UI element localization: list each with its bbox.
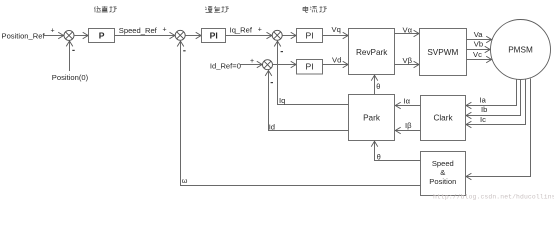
minus sign at S4 [271, 82, 273, 83]
wire S3 to PI iq [282, 35, 296, 37]
svg-text:+: + [51, 27, 55, 34]
block Clark [421, 96, 466, 141]
svg-text:θ: θ [376, 82, 380, 91]
wire Clark to Park (Ibeta) [395, 130, 420, 132]
wire PI iq to RevPark [323, 35, 349, 37]
svg-text:Id_Ref=0: Id_Ref=0 [210, 61, 241, 70]
svg-text:PI: PI [210, 31, 218, 41]
svg-text:Iq: Iq [279, 96, 285, 105]
svg-text:PMSM: PMSM [508, 46, 533, 55]
svg-text:Speed_Ref: Speed_Ref [119, 26, 158, 35]
minus sign at S2 [183, 50, 185, 51]
svg-text:θ: θ [377, 153, 381, 162]
svg-text:Vβ: Vβ [403, 56, 413, 65]
svg-text:Id: Id [269, 122, 275, 131]
wire SVPWM to PMSM (Vc) [467, 59, 492, 61]
svg-text:Ia: Ia [480, 95, 487, 104]
motor PMSM [491, 20, 551, 80]
svg-text:Vb: Vb [474, 40, 483, 49]
svg-text:Ic: Ic [480, 115, 486, 124]
svg-text:PI: PI [306, 62, 314, 72]
wire theta from Park top up into RevPark [374, 75, 376, 94]
block Speed & Position [421, 152, 466, 196]
svg-text:+: + [163, 27, 167, 34]
summing junction S4 (id error) [263, 60, 273, 70]
wire SVPWM to PMSM (Vb) [467, 49, 491, 51]
block PI (id current controller) [297, 60, 323, 75]
svg-text:+: + [250, 58, 254, 65]
block PI (speed controller) [202, 29, 226, 43]
svg-text:PI: PI [306, 31, 314, 41]
wire S1 to P controller [74, 35, 88, 37]
wire Position_Ref to summing junction S1 [44, 35, 64, 37]
block PI (iq current controller) [297, 29, 323, 43]
wire theta from Speed&Position to Park bottom [375, 141, 421, 160]
wire Position(0) up to S1 [69, 41, 71, 71]
svg-text:Iq_Ref: Iq_Ref [230, 25, 253, 34]
wire Park Iq feedback to S3 [278, 41, 349, 104]
wire Clark to Park (Ialpha) [395, 105, 420, 107]
svg-text:RevPark: RevPark [356, 48, 388, 57]
wire S4 to PI id [273, 64, 296, 66]
svg-text:Park: Park [363, 114, 381, 123]
wire PMSM phase a down to Clark (Ia) [466, 79, 517, 105]
wire RevPark to SVPWM (Vbeta) [395, 64, 420, 66]
svg-text:Position: Position [429, 177, 456, 186]
summing junction S2 (speed error) [175, 30, 185, 40]
svg-text:&: & [440, 168, 445, 177]
label 电流环 (current loop) [303, 6, 327, 12]
block P (position controller) [89, 29, 115, 43]
svg-text:Vd: Vd [332, 56, 341, 65]
svg-text:Vq: Vq [332, 25, 341, 34]
label 位置环 (position loop) [94, 6, 116, 12]
wire S2 to PI speed [185, 35, 201, 37]
minus sign at S1 [72, 50, 74, 51]
svg-text:Iα: Iα [404, 96, 411, 105]
wire PMSM shaft down to Speed & Position [466, 79, 531, 177]
wire Park Id feedback to S4 [269, 71, 349, 131]
svg-text:P: P [99, 31, 105, 41]
svg-text:+: + [258, 27, 262, 34]
wire PMSM phase c down to Clark (Ic) [466, 79, 526, 125]
wire SVPWM to PMSM (Va) [467, 39, 492, 41]
minus sign at S3 [281, 51, 283, 52]
svg-text:ω: ω [182, 176, 188, 185]
wire PI id to RevPark [323, 64, 349, 66]
summing junction S1 (position error) [64, 30, 74, 40]
block Park [349, 95, 395, 141]
label 速度环 (speed loop) [205, 6, 229, 12]
wire omega from Speed&Position to S2 [181, 41, 421, 185]
svg-text:Va: Va [474, 30, 484, 39]
svg-text:Position(0): Position(0) [52, 73, 89, 82]
svg-text:Speed: Speed [432, 159, 454, 168]
wire PMSM phase b down to Clark (Ib) [466, 79, 521, 115]
block RevPark [349, 29, 395, 75]
svg-text:SVPWM: SVPWM [427, 48, 458, 57]
svg-text:Position_Ref: Position_Ref [2, 31, 46, 40]
block SVPWM [420, 29, 467, 76]
svg-text:http://blog.csdn.net/hducollin: http://blog.csdn.net/hducollins [433, 194, 554, 201]
svg-text:Vc: Vc [473, 50, 482, 59]
svg-text:Iβ: Iβ [405, 121, 412, 130]
wire RevPark to SVPWM (Valpha) [395, 33, 420, 35]
svg-text:Ib: Ib [481, 105, 487, 114]
svg-text:Clark: Clark [433, 114, 453, 123]
wire PI speed to summing junction S3 [226, 35, 272, 37]
wire Id_Ref to summing junction S4 [241, 64, 263, 66]
summing junction S3 (iq error) [272, 30, 282, 40]
svg-text:Vα: Vα [403, 25, 413, 34]
wire P to summing junction S2 [115, 35, 175, 37]
